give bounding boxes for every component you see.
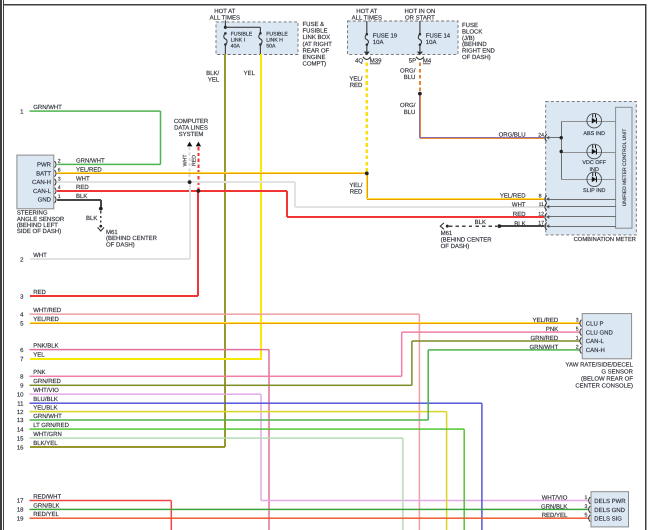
wire WHT/RED terminal 4 xyxy=(30,313,420,315)
wire RED/YEL terminal 19 to DELS SIG xyxy=(30,517,590,519)
wire GRN/RED terminal 9 to yaw sensor CAN-L xyxy=(30,385,412,387)
svg-text:OF DASH): OF DASH) xyxy=(462,54,491,61)
svg-text:BLU: BLU xyxy=(404,74,416,81)
svg-text:8: 8 xyxy=(20,374,24,381)
svg-text:M61: M61 xyxy=(441,230,453,237)
svg-text:FUSE: FUSE xyxy=(462,22,478,29)
svg-text:14: 14 xyxy=(17,426,24,433)
svg-text:RED: RED xyxy=(350,189,363,196)
svg-text:RED: RED xyxy=(513,211,526,218)
svg-text:UNIFIED METER CONTROL UNIT: UNIFIED METER CONTROL UNIT xyxy=(622,129,628,207)
svg-text:FUSE 14: FUSE 14 xyxy=(426,33,451,40)
svg-text:BLK: BLK xyxy=(475,219,486,226)
svg-text:(BEHIND CENTER: (BEHIND CENTER xyxy=(441,237,493,244)
svg-text:7: 7 xyxy=(20,356,24,363)
svg-text:GRN/WHT: GRN/WHT xyxy=(33,413,62,420)
svg-text:OF DASH): OF DASH) xyxy=(106,242,135,249)
svg-text:YEL/RED: YEL/RED xyxy=(500,192,526,199)
wire GRN/BLK terminal 18 to DELS GND xyxy=(30,509,590,511)
wire GRN/WHT terminal 13 to yaw sensor CAN-H xyxy=(30,419,429,421)
svg-text:GRN/WHT: GRN/WHT xyxy=(530,344,559,351)
wire PNK terminal 8 to yaw sensor CLU GND xyxy=(30,376,402,378)
wire WHT sensor CAN-H pin 3 to meter pin 11 xyxy=(57,181,295,183)
wire YEL/RED dashed from fuse 19 xyxy=(366,63,368,173)
svg-text:19: 19 xyxy=(17,515,24,522)
svg-text:RED/WHT: RED/WHT xyxy=(33,493,61,500)
svg-text:PNK: PNK xyxy=(546,326,558,333)
DELS connector box xyxy=(591,492,629,527)
svg-text:GRN/RED: GRN/RED xyxy=(33,378,61,385)
svg-text:10A: 10A xyxy=(426,39,437,46)
svg-text:GRN/BLK: GRN/BLK xyxy=(33,502,59,509)
fuse 19 10A xyxy=(366,21,367,34)
node junction WHT data line xyxy=(188,180,192,184)
connector 4Q M39 xyxy=(364,52,370,56)
svg-text:YEL: YEL xyxy=(33,352,45,359)
svg-text:5P: 5P xyxy=(409,57,416,64)
ground M61 (sensor side) xyxy=(99,207,103,211)
pin 12 connector xyxy=(545,213,547,220)
svg-text:RED: RED xyxy=(191,155,197,166)
svg-text:YEL/: YEL/ xyxy=(349,75,362,82)
svg-text:WHT: WHT xyxy=(182,154,188,167)
svg-text:GRN/BLK: GRN/BLK xyxy=(541,503,567,510)
wire internal pin 17 xyxy=(547,226,616,227)
svg-text:FUSE &: FUSE & xyxy=(303,21,325,28)
svg-text:RED/YEL: RED/YEL xyxy=(33,511,59,518)
svg-text:ORG/BLU: ORG/BLU xyxy=(499,131,526,138)
svg-text:CAN-L: CAN-L xyxy=(33,188,52,195)
svg-text:9: 9 xyxy=(20,383,24,390)
pin 4 CAN-L connector xyxy=(55,188,56,195)
svg-text:BLK: BLK xyxy=(86,215,97,222)
svg-text:WHT/VIO: WHT/VIO xyxy=(542,495,568,502)
svg-text:2: 2 xyxy=(576,344,579,350)
svg-text:ALL TIMES: ALL TIMES xyxy=(352,15,382,22)
svg-text:LT GRN/RED: LT GRN/RED xyxy=(33,422,69,429)
svg-text:G SENSOR: G SENSOR xyxy=(601,369,633,376)
svg-text:RED: RED xyxy=(350,82,363,89)
fuse and fusible link box (dashed, at right rear of engine compt) xyxy=(216,22,298,55)
svg-text:GND: GND xyxy=(38,197,52,204)
wire ORG/BLU to combination meter pin 24 xyxy=(419,94,420,138)
wire YEL terminal 7 xyxy=(30,358,262,360)
svg-text:40A: 40A xyxy=(231,43,241,49)
indicator VDC OFF IND xyxy=(561,152,616,153)
svg-text:5: 5 xyxy=(576,327,579,333)
svg-text:17: 17 xyxy=(17,498,24,505)
node junction BLK xyxy=(497,224,501,228)
wire RED sensor CAN-L pin 4 to meter pin 12 xyxy=(57,190,287,192)
svg-text:OR START: OR START xyxy=(405,15,435,22)
svg-text:3: 3 xyxy=(20,293,24,300)
wire YEL/RED sensor BATT pin 6 xyxy=(57,172,367,173)
connector 5P M4 xyxy=(417,52,423,56)
svg-text:15: 15 xyxy=(17,435,24,442)
svg-text:COMBINATION METER: COMBINATION METER xyxy=(574,236,636,243)
svg-text:YAW RATE/SIDE/DECEL: YAW RATE/SIDE/DECEL xyxy=(565,361,633,368)
svg-text:10A: 10A xyxy=(373,39,384,46)
svg-text:BATT: BATT xyxy=(36,170,51,177)
svg-text:YEL/RED: YEL/RED xyxy=(533,317,559,324)
pin 5 DELS connector xyxy=(589,515,591,522)
wire internal pin 11 xyxy=(547,206,616,207)
wire internal pin 8 xyxy=(547,199,616,200)
svg-text:M61: M61 xyxy=(106,229,118,236)
svg-text:CLU GND: CLU GND xyxy=(586,329,614,336)
wire RED/WHT terminal 17 xyxy=(30,500,172,502)
svg-text:12: 12 xyxy=(538,212,544,218)
pin 1 DELS connector xyxy=(589,497,591,504)
svg-text:WHT/GRN: WHT/GRN xyxy=(33,431,62,438)
svg-text:CAN-H: CAN-H xyxy=(32,179,51,186)
bus vertical unified meter xyxy=(561,121,562,179)
wire BLK sensor GND pin 1 xyxy=(57,199,101,201)
svg-text:WHT/VIO: WHT/VIO xyxy=(33,387,59,394)
svg-text:ENGINE: ENGINE xyxy=(303,54,326,61)
wire PNK/BLK terminal 6 xyxy=(30,349,270,351)
pin 3 yaw sensor connector xyxy=(580,320,582,327)
svg-text:GRN/RED: GRN/RED xyxy=(531,335,559,342)
fuse block (J/B) dashed box xyxy=(348,21,459,54)
svg-text:YEL: YEL xyxy=(244,70,256,77)
wire YEL/RED terminal 5 to yaw sensor CLU P xyxy=(30,322,580,323)
svg-text:FUSIBLE: FUSIBLE xyxy=(303,28,328,35)
svg-text:COMPT): COMPT) xyxy=(303,61,327,68)
ground M61 (meter side) xyxy=(449,225,497,227)
svg-text:BLU: BLU xyxy=(404,109,416,116)
svg-text:3: 3 xyxy=(576,318,579,324)
svg-text:ABS IND: ABS IND xyxy=(583,131,605,137)
svg-text:5: 5 xyxy=(20,320,24,327)
svg-text:HOT IN ON: HOT IN ON xyxy=(404,8,435,15)
wire internal pin 24 to bus xyxy=(547,137,561,138)
svg-text:BLOCK: BLOCK xyxy=(462,28,482,35)
svg-text:GRN/WHT: GRN/WHT xyxy=(76,158,105,165)
svg-text:VDC OFF: VDC OFF xyxy=(582,160,606,166)
pin 6 BATT connector xyxy=(55,170,56,177)
svg-text:18: 18 xyxy=(17,507,24,514)
svg-text:WHT/RED: WHT/RED xyxy=(33,307,62,314)
pin 3 DELS connector xyxy=(589,506,591,513)
wire internal pin 12 xyxy=(547,216,616,217)
svg-text:16: 16 xyxy=(17,444,24,451)
svg-text:CLU P: CLU P xyxy=(586,320,604,327)
node bus junction pin 24 xyxy=(560,136,563,139)
node junction ORG/BLU at fuse 14 wire xyxy=(418,92,422,96)
svg-text:SYSTEM: SYSTEM xyxy=(179,131,204,138)
pin 8 connector xyxy=(545,196,547,203)
pin 3 CAN-H connector xyxy=(55,179,56,186)
svg-text:YEL/RED: YEL/RED xyxy=(76,167,102,174)
indicator ABS IND xyxy=(561,121,616,122)
svg-text:1: 1 xyxy=(58,194,61,200)
wire WHT dashed to arrow xyxy=(189,147,191,181)
svg-text:DELS GND: DELS GND xyxy=(594,507,625,514)
arrow to computer data lines (WHT) xyxy=(187,142,192,147)
combination meter dashed box xyxy=(546,101,637,235)
svg-text:1: 1 xyxy=(20,108,24,115)
svg-text:SLIP IND: SLIP IND xyxy=(583,188,605,194)
wire GRN/WHT terminal 1 to sensor PWR pin 2 xyxy=(30,110,161,112)
svg-text:ORG/: ORG/ xyxy=(400,102,416,109)
svg-text:PWR: PWR xyxy=(37,161,52,168)
svg-text:WHT: WHT xyxy=(76,175,90,182)
pin 5 yaw sensor connector xyxy=(580,329,582,336)
svg-text:FUSE 19: FUSE 19 xyxy=(373,33,398,40)
indicator SLIP IND xyxy=(561,179,616,180)
svg-text:BLU/BLK: BLU/BLK xyxy=(33,396,58,403)
svg-text:YEL/: YEL/ xyxy=(349,182,362,189)
svg-text:(AT RIGHT: (AT RIGHT xyxy=(303,41,333,48)
svg-text:13: 13 xyxy=(17,417,24,424)
svg-text:HOT AT: HOT AT xyxy=(214,8,235,15)
svg-text:8: 8 xyxy=(539,194,542,200)
svg-text:PNK/BLK: PNK/BLK xyxy=(33,343,58,350)
pin 17 connector xyxy=(545,223,547,230)
fusible link H 50A xyxy=(259,32,262,35)
svg-text:3: 3 xyxy=(585,504,588,510)
wire BLK/YEL terminal 16 xyxy=(30,446,225,448)
svg-text:1: 1 xyxy=(576,335,579,341)
svg-text:11: 11 xyxy=(17,400,24,407)
svg-text:(BEHIND: (BEHIND xyxy=(462,41,487,48)
svg-text:11: 11 xyxy=(539,202,544,208)
svg-text:ANGLE SENSOR: ANGLE SENSOR xyxy=(17,216,65,223)
svg-text:ORG/: ORG/ xyxy=(400,67,416,74)
svg-text:12: 12 xyxy=(17,409,24,416)
wire YEL/RED from junction to combination meter pin 8 xyxy=(366,174,367,199)
svg-text:HOT AT: HOT AT xyxy=(356,8,377,15)
wire ORG/BLU dashed from fuse 14 xyxy=(419,63,421,92)
svg-text:(BELOW REAR OF: (BELOW REAR OF xyxy=(581,376,633,383)
pin 24 connector combination meter xyxy=(545,134,547,141)
wire BLK meter pin 17 to ground xyxy=(499,225,544,227)
svg-text:RIGHT END: RIGHT END xyxy=(462,48,496,55)
svg-text:SIDE OF DASH): SIDE OF DASH) xyxy=(17,228,61,235)
wire BLU/BLK terminal 11 xyxy=(30,402,482,404)
wire RED terminal 3 xyxy=(30,295,198,297)
svg-text:YEL/BLK: YEL/BLK xyxy=(33,405,57,412)
svg-text:RED: RED xyxy=(76,184,89,191)
svg-text:RED/YEL: RED/YEL xyxy=(542,512,568,519)
svg-text:GRN/WHT: GRN/WHT xyxy=(33,104,62,111)
pin 11 connector xyxy=(545,203,547,210)
wire feed into fusible link box xyxy=(225,20,226,27)
svg-text:WHT: WHT xyxy=(512,201,526,208)
svg-text:6: 6 xyxy=(20,347,24,354)
svg-text:LINK BOX: LINK BOX xyxy=(303,34,331,41)
svg-text:2: 2 xyxy=(20,256,24,263)
svg-text:REAR OF: REAR OF xyxy=(303,47,330,54)
svg-text:(BEHIND CENTER: (BEHIND CENTER xyxy=(106,235,158,242)
svg-text:BLK: BLK xyxy=(76,193,87,200)
svg-text:DELS SIG: DELS SIG xyxy=(594,516,622,523)
svg-text:DATA LINES: DATA LINES xyxy=(174,125,208,132)
node junction fusible links xyxy=(224,26,227,29)
svg-text:CAN-H: CAN-H xyxy=(586,347,605,354)
node bus junction VDC branch xyxy=(560,150,563,153)
svg-text:STEERING: STEERING xyxy=(17,210,48,217)
yaw rate/side/decel G sensor box xyxy=(582,314,631,359)
unified meter control unit box xyxy=(616,107,632,228)
wire WHT terminal 2 xyxy=(30,258,190,260)
pin 2 PWR connector xyxy=(55,161,56,168)
wire YEL/BLK terminal 12 xyxy=(30,411,447,413)
wire WHT/VIO terminal 10 to DELS PWR xyxy=(30,393,262,395)
svg-text:BLK/: BLK/ xyxy=(206,70,219,77)
wire YEL vertical from fusible link H xyxy=(260,54,262,359)
svg-text:CAN-L: CAN-L xyxy=(586,338,605,345)
svg-text:(BEHIND LEFT: (BEHIND LEFT xyxy=(17,222,58,229)
fuse 14 10A xyxy=(419,21,420,34)
node junction RED data line xyxy=(197,189,201,193)
svg-text:10: 10 xyxy=(17,391,24,398)
wire WHT/GRN terminal 15 xyxy=(30,437,403,439)
pin 2 yaw sensor connector xyxy=(580,346,582,353)
svg-text:PNK: PNK xyxy=(33,369,45,376)
svg-text:24: 24 xyxy=(538,132,544,138)
svg-text:COMPUTER: COMPUTER xyxy=(174,118,209,125)
svg-text:CENTER CONSOLE): CENTER CONSOLE) xyxy=(575,383,633,390)
svg-text:5: 5 xyxy=(585,513,588,519)
svg-text:4Q: 4Q xyxy=(355,57,363,64)
svg-text:1: 1 xyxy=(585,495,588,501)
pin 1 GND connector xyxy=(55,196,56,203)
svg-text:M4: M4 xyxy=(423,57,432,64)
pin 1 yaw sensor connector xyxy=(580,338,582,345)
fusible link I 40A xyxy=(224,32,227,35)
svg-text:(J/B): (J/B) xyxy=(462,35,475,42)
wire RED dashed to arrow xyxy=(197,147,199,190)
node junction YEL/RED at fuse 19 wire xyxy=(365,172,369,176)
wire LT GRN/RED terminal 14 xyxy=(30,428,465,430)
svg-text:50A: 50A xyxy=(266,43,276,49)
steering angle sensor box xyxy=(17,155,54,209)
svg-text:DELS PWR: DELS PWR xyxy=(594,498,626,505)
svg-text:4: 4 xyxy=(20,311,24,318)
svg-text:OF DASH): OF DASH) xyxy=(441,243,470,250)
arrow to computer data lines (RED) xyxy=(196,142,201,147)
svg-text:M39: M39 xyxy=(370,57,382,64)
wire BLK/YEL vertical from fusible link I xyxy=(224,54,226,447)
svg-text:YEL: YEL xyxy=(208,77,220,84)
